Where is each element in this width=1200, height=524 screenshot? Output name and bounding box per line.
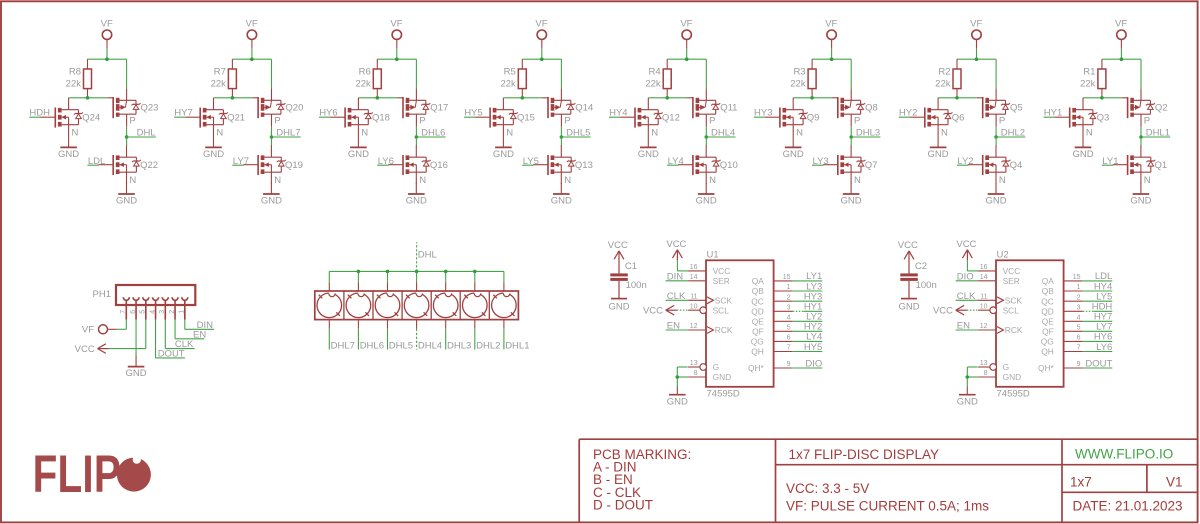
ground: [406, 183, 427, 206]
svg-text:G: G: [713, 362, 720, 372]
net label DOUT: [156, 320, 185, 360]
svg-text:P: P: [709, 116, 715, 127]
svg-text:DHL4: DHL4: [418, 340, 442, 351]
svg-text:N: N: [941, 127, 948, 138]
node below resistor: [86, 96, 90, 100]
wire gate bus: [358, 97, 397, 99]
pin 16 VCC of U1: [688, 264, 730, 276]
coil disc 2: [463, 290, 488, 317]
svg-text:74595D: 74595D: [997, 388, 1030, 399]
ground: [898, 299, 919, 313]
transistor Q17 P-MOSFET: [397, 88, 448, 126]
net label LY3: [793, 281, 823, 292]
net label DHL5: [388, 320, 414, 352]
svg-text:R6: R6: [359, 67, 371, 78]
svg-text:DHL6: DHL6: [360, 340, 384, 351]
net label HY3: [754, 108, 773, 119]
svg-text:R3: R3: [793, 67, 805, 78]
net label DHL6: [416, 127, 445, 138]
svg-text:VF: VF: [825, 18, 837, 29]
wire: [995, 137, 997, 146]
node DHL7: [270, 135, 274, 139]
wire common bus: [329, 271, 504, 291]
ground: [116, 183, 137, 206]
net label LY7: [1083, 322, 1113, 333]
svg-text:GND: GND: [1130, 195, 1151, 206]
net label LY1: [793, 271, 823, 282]
net label DHL: [127, 127, 156, 138]
capacitor C1 100n: [610, 251, 646, 299]
resistor R7 22k: [211, 59, 237, 98]
svg-text:DOUT: DOUT: [1085, 358, 1112, 369]
connector pin 4: [149, 297, 158, 319]
net label HY4: [1083, 281, 1113, 292]
net label LY5: [1083, 292, 1113, 303]
svg-text:VCC: VCC: [1003, 266, 1021, 276]
node below resistor: [955, 96, 959, 100]
svg-text:QD: QD: [751, 307, 764, 317]
ground: [928, 137, 949, 160]
transistor Q21 N-MOSFET: [185, 98, 245, 139]
svg-text:22k: 22k: [211, 79, 227, 90]
svg-text:VCC: VCC: [898, 240, 918, 251]
svg-text:DHL4: DHL4: [711, 127, 735, 138]
svg-text:N: N: [564, 175, 571, 186]
svg-text:SCK: SCK: [715, 296, 733, 306]
pin 11 SCK of U1: [688, 294, 732, 306]
node DHL5: [560, 135, 564, 139]
svg-text:EN: EN: [957, 321, 970, 332]
wire: [812, 49, 851, 59]
wire: [232, 49, 271, 59]
net label LY5: [522, 156, 539, 167]
wire to VF: [995, 59, 997, 88]
pin 16 VCC of U2: [978, 264, 1020, 276]
svg-text:13: 13: [980, 360, 988, 367]
pin 3 QD of U2: [1041, 305, 1083, 317]
svg-text:74595D: 74595D: [707, 388, 740, 399]
svg-text:22k: 22k: [935, 79, 951, 90]
node VF junction: [250, 57, 254, 61]
power pin VF (block 3): [390, 18, 402, 49]
svg-text:FLIP: FLIP: [33, 445, 121, 503]
net label LY4: [667, 156, 684, 167]
svg-text:1x7 FLIP-DISC DISPLAY: 1x7 FLIP-DISC DISPLAY: [789, 447, 940, 462]
supply VCC arrow up: [666, 239, 686, 260]
net label EN: [666, 321, 689, 332]
pin VF: [82, 325, 117, 336]
svg-text:Q9: Q9: [807, 112, 820, 123]
wire: [271, 137, 273, 146]
svg-text:N: N: [1144, 175, 1151, 186]
svg-text:VF: VF: [101, 18, 113, 29]
net label DHL2: [996, 127, 1025, 138]
pin 11 SCK of U2: [978, 294, 1022, 306]
pin 15 QA of U2: [1042, 274, 1083, 286]
wire: [415, 127, 417, 137]
svg-text:4: 4: [787, 315, 791, 322]
svg-text:C1: C1: [625, 261, 637, 272]
transistor Q22 N-MOSFET: [98, 145, 158, 186]
ground: [608, 299, 629, 313]
net label CLK: [666, 291, 689, 302]
svg-text:DHL1: DHL1: [505, 340, 529, 351]
svg-text:N: N: [709, 175, 716, 186]
wire VCC16: [967, 260, 978, 271]
node DHL1: [1139, 135, 1143, 139]
pin 9 QH* of U2: [1038, 361, 1083, 373]
svg-text:VF: VF: [970, 18, 982, 29]
node bus junction: [444, 270, 448, 274]
ground: [125, 356, 146, 379]
power pin VF (block 2): [246, 18, 258, 49]
power pin VF (block 7): [970, 18, 982, 49]
svg-text:VCC: 3.3 - 5V: VCC: 3.3 - 5V: [786, 481, 869, 496]
svg-text:D - DOUT: D - DOUT: [593, 497, 653, 512]
svg-text:GND: GND: [203, 149, 224, 160]
net label EN: [956, 321, 979, 332]
ground: [203, 137, 224, 160]
svg-text:9: 9: [787, 361, 791, 368]
svg-text:Q15: Q15: [517, 112, 535, 123]
svg-text:DHL2: DHL2: [1001, 127, 1025, 138]
svg-text:22k: 22k: [1080, 79, 1096, 90]
net label DIN: [185, 320, 214, 331]
svg-text:Q21: Q21: [227, 112, 245, 123]
svg-text:SCL: SCL: [713, 305, 730, 315]
svg-text:1: 1: [179, 310, 186, 314]
svg-text:P: P: [999, 116, 1005, 127]
ground: [58, 137, 79, 160]
svg-text:DHL7: DHL7: [276, 127, 300, 138]
wire G-GND: [967, 367, 978, 387]
svg-text:N: N: [506, 127, 513, 138]
pin 15 QA of U1: [752, 274, 793, 286]
svg-text:N: N: [129, 175, 136, 186]
wire gate bus: [648, 97, 687, 99]
svg-text:Q13: Q13: [575, 160, 593, 171]
wire: [667, 49, 706, 59]
ground: [841, 183, 862, 206]
pin 10 SCL of U1: [688, 303, 729, 315]
ground: [493, 137, 514, 160]
node VF junction: [540, 57, 544, 61]
svg-text:N: N: [854, 175, 861, 186]
net label DHL3: [851, 127, 880, 138]
svg-text:8: 8: [694, 370, 698, 377]
power pin VF (block 5): [680, 18, 692, 49]
svg-text:QG: QG: [1041, 337, 1054, 347]
coil disc 5: [375, 290, 400, 317]
svg-text:13: 13: [690, 360, 698, 367]
pin 5 QF of U1: [752, 325, 793, 337]
svg-text:VCC: VCC: [643, 305, 663, 316]
svg-text:DHL1: DHL1: [1146, 127, 1170, 138]
node below resistor: [810, 96, 814, 100]
svg-text:P: P: [419, 116, 425, 127]
node below resistor: [665, 96, 669, 100]
svg-text:GND: GND: [696, 195, 717, 206]
ground: [1072, 137, 1093, 160]
svg-text:22k: 22k: [355, 79, 371, 90]
svg-text:7: 7: [787, 345, 791, 352]
wire: [967, 309, 978, 311]
transistor Q8 P-MOSFET: [832, 88, 878, 126]
svg-text:Q18: Q18: [372, 112, 390, 123]
svg-text:10: 10: [690, 303, 698, 310]
transistor Q19 N-MOSFET: [243, 145, 303, 186]
svg-text:Q11: Q11: [720, 103, 737, 114]
pin 2 QC of U2: [1041, 294, 1083, 306]
svg-text:12: 12: [980, 323, 988, 330]
svg-text:Q8: Q8: [865, 103, 878, 114]
net label DHL6: [358, 320, 384, 352]
pin 3 QD of U1: [751, 305, 793, 317]
net label HDH: [1083, 302, 1113, 313]
wire: [957, 49, 996, 59]
svg-text:GND: GND: [406, 195, 427, 206]
net label DHL: [417, 242, 437, 271]
svg-text:2: 2: [169, 310, 176, 314]
svg-text:14: 14: [980, 274, 988, 281]
wire: [560, 137, 562, 146]
svg-text:8: 8: [984, 370, 988, 377]
wire pin5 to VCC: [107, 320, 146, 349]
connector PH1: [93, 285, 196, 305]
svg-text:14: 14: [690, 274, 698, 281]
svg-text:11: 11: [690, 294, 697, 301]
svg-text:R8: R8: [69, 67, 81, 78]
ground: [348, 137, 369, 160]
svg-text:GND: GND: [348, 149, 369, 160]
svg-text:3: 3: [787, 305, 791, 312]
svg-text:VF: PULSE CURRENT 0.5A; 1ms: VF: PULSE CURRENT 0.5A; 1ms: [786, 499, 989, 514]
svg-text:22k: 22k: [790, 79, 806, 90]
wire: [850, 127, 852, 137]
net label DHL1: [504, 320, 530, 352]
wire gate bus: [793, 97, 832, 99]
svg-text:5: 5: [787, 325, 791, 332]
svg-text:P: P: [854, 116, 860, 127]
svg-text:PH1: PH1: [93, 289, 111, 300]
node VF junction: [1120, 57, 1124, 61]
ground: [783, 137, 804, 160]
svg-text:VCC: VCC: [713, 266, 731, 276]
net label LY3: [812, 156, 829, 167]
svg-text:N: N: [419, 175, 426, 186]
svg-text:GND: GND: [713, 372, 732, 382]
IC U2 74595D: [996, 250, 1064, 400]
node below resistor: [521, 96, 525, 100]
svg-text:QD: QD: [1041, 307, 1054, 317]
svg-text:1: 1: [1077, 284, 1081, 291]
svg-text:2: 2: [1077, 294, 1081, 301]
ground: [696, 183, 717, 206]
svg-text:QH: QH: [1041, 347, 1054, 357]
svg-text:WWW.FLIPO.IO: WWW.FLIPO.IO: [1075, 447, 1173, 462]
svg-text:3: 3: [159, 310, 166, 314]
net label HY7: [174, 108, 193, 119]
svg-text:GND: GND: [957, 396, 978, 407]
pin 2 QC of U1: [751, 294, 793, 306]
net label HY2: [899, 108, 918, 119]
svg-text:N: N: [361, 127, 368, 138]
svg-text:7: 7: [120, 310, 127, 314]
net label LY6: [377, 156, 394, 167]
net label HY1: [1044, 108, 1063, 119]
net label LY7: [232, 156, 249, 167]
net label HY2: [793, 322, 823, 333]
svg-text:GND: GND: [1003, 372, 1022, 382]
net label LY2: [793, 312, 823, 323]
svg-text:V1: V1: [1166, 474, 1183, 489]
wire: [88, 49, 127, 59]
wire to VF: [705, 59, 707, 88]
pin 4 QE of U1: [752, 315, 793, 327]
svg-text:Q1: Q1: [1155, 160, 1168, 171]
wire: [522, 49, 561, 59]
resistor R6 22k: [355, 59, 381, 98]
svg-text:GND: GND: [1072, 149, 1093, 160]
svg-text:QB: QB: [752, 286, 765, 296]
net label LDL: [87, 156, 105, 167]
flip-disc coil array L1: [315, 291, 519, 320]
svg-text:RCK: RCK: [1005, 325, 1023, 335]
transistor Q12 N-MOSFET: [620, 98, 680, 139]
svg-text:QH*: QH*: [748, 363, 765, 373]
transistor Q18 N-MOSFET: [330, 98, 390, 139]
power pin VF (block 6): [825, 18, 837, 49]
svg-text:6: 6: [1077, 335, 1081, 342]
svg-text:N: N: [651, 127, 658, 138]
svg-text:GND: GND: [638, 149, 659, 160]
svg-text:100n: 100n: [916, 280, 937, 291]
svg-text:R2: R2: [938, 67, 950, 78]
wire gate bus: [1083, 97, 1122, 99]
power pin VF (block 4): [535, 18, 547, 49]
ground: [985, 183, 1006, 206]
svg-text:22k: 22k: [66, 79, 82, 90]
svg-text:DATE: 21.01.2023: DATE: 21.01.2023: [1073, 499, 1183, 514]
svg-text:GND: GND: [783, 149, 804, 160]
ground: [1130, 183, 1151, 206]
title text revision: [1070, 474, 1183, 513]
node GND junction: [966, 375, 970, 379]
transistor Q11 P-MOSFET: [687, 88, 737, 126]
svg-text:QF: QF: [752, 327, 764, 337]
svg-text:22k: 22k: [500, 79, 516, 90]
net label LY1: [1102, 156, 1119, 167]
svg-text:Q5: Q5: [1010, 103, 1023, 114]
svg-text:DHL2: DHL2: [476, 340, 500, 351]
svg-text:DIN: DIN: [667, 271, 684, 282]
node DHL2: [994, 135, 998, 139]
svg-text:QH*: QH*: [1038, 363, 1055, 373]
net label LY2: [957, 156, 974, 167]
pin 6 QG of U2: [1041, 335, 1083, 347]
svg-text:GND: GND: [58, 149, 79, 160]
svg-text:R1: R1: [1083, 67, 1095, 78]
supply VCC arrow left: [933, 305, 967, 316]
capacitor C2 100n: [900, 251, 936, 299]
svg-text:SER: SER: [713, 276, 730, 286]
svg-text:DHL: DHL: [137, 127, 156, 138]
transistor Q9 N-MOSFET: [765, 98, 819, 139]
svg-text:3: 3: [1077, 305, 1081, 312]
connector pin 5: [140, 297, 149, 319]
svg-text:VCC: VCC: [933, 305, 953, 316]
net label HY3: [793, 292, 823, 303]
svg-text:DIO: DIO: [805, 358, 822, 369]
svg-text:GND: GND: [985, 195, 1006, 206]
pin 4 QE of U2: [1042, 315, 1083, 327]
pin 14 SER of U2: [978, 274, 1020, 286]
transistor Q14 P-MOSFET: [542, 88, 593, 126]
svg-text:7: 7: [1077, 345, 1081, 352]
net label HY5: [793, 342, 823, 353]
pin 13 G of U1: [688, 360, 719, 372]
coil disc 1: [492, 290, 517, 317]
pin 5 QF of U2: [1042, 325, 1083, 337]
node bus junction: [415, 270, 419, 274]
net label DHL3: [446, 320, 472, 352]
svg-text:16: 16: [690, 264, 698, 271]
svg-text:GND: GND: [493, 149, 514, 160]
pin 10 SCL of U2: [978, 303, 1019, 315]
pin 8 GND of U1: [688, 370, 731, 382]
wire: [995, 127, 997, 137]
resistor R1 22k: [1080, 59, 1106, 98]
connector pin 7: [120, 297, 129, 319]
svg-text:Q23: Q23: [141, 103, 159, 114]
svg-text:9: 9: [1077, 361, 1081, 368]
svg-text:100n: 100n: [626, 280, 647, 291]
svg-text:2: 2: [787, 294, 791, 301]
svg-text:U2: U2: [997, 250, 1009, 261]
node VF junction: [395, 57, 399, 61]
node VF junction: [975, 57, 979, 61]
svg-text:5: 5: [1077, 325, 1081, 332]
net label LY4: [793, 332, 823, 343]
net label DHL4: [706, 127, 735, 138]
svg-text:N: N: [1086, 127, 1093, 138]
net label LY6: [1083, 342, 1113, 353]
svg-text:N: N: [216, 127, 223, 138]
resistor R5 22k: [500, 59, 526, 98]
wire VCC16: [677, 260, 688, 271]
IC U1 74595D: [706, 250, 774, 400]
svg-text:4: 4: [1077, 315, 1081, 322]
svg-text:VF: VF: [390, 18, 402, 29]
resistor R3 22k: [790, 59, 816, 98]
svg-text:QF: QF: [1042, 327, 1054, 337]
supply VCC arrow up: [608, 240, 628, 259]
svg-text:DHL3: DHL3: [856, 127, 880, 138]
pin 9 QH* of U1: [748, 361, 793, 373]
wire to VF: [560, 59, 562, 88]
svg-text:SCK: SCK: [1005, 296, 1023, 306]
svg-text:Q12: Q12: [662, 112, 680, 123]
net label DHL1: [1141, 127, 1170, 138]
coil disc 4: [404, 290, 429, 317]
supply VCC arrow up: [956, 239, 976, 260]
net label DIN: [666, 271, 689, 282]
logo FLIPO: [33, 445, 151, 503]
net label HY1: [793, 302, 823, 313]
svg-text:12: 12: [690, 323, 698, 330]
ground: [551, 183, 572, 206]
svg-text:DHL: DHL: [418, 250, 437, 261]
